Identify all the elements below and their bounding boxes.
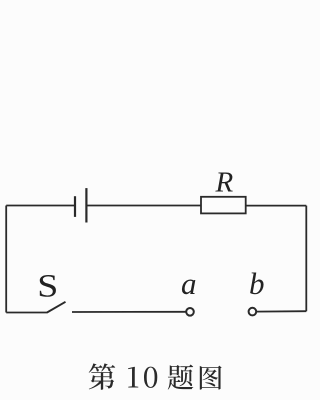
resistor R box — [201, 197, 246, 214]
wire: top-left from left corner to battery — [6, 205, 75, 207]
terminal b open circle — [249, 308, 257, 316]
caption glyph 题 — [168, 365, 193, 390]
battery cell short plate (negative) — [74, 196, 76, 217]
caption glyph 图 — [200, 366, 222, 390]
switch S blade (open) — [47, 302, 66, 313]
battery cell long plate (positive) — [85, 188, 87, 222]
wire: battery to resistor — [86, 205, 201, 207]
svg-text:S: S — [37, 267, 58, 304]
wire: resistor to top-right corner — [246, 205, 307, 207]
svg-text:b: b — [249, 266, 265, 301]
wire: switch pivot to bottom-left corner — [6, 312, 47, 314]
caption glyph 1 — [128, 367, 138, 388]
wire: bottom-right corner to terminal b — [256, 310, 306, 312]
terminal a open circle — [186, 308, 194, 316]
wire: right side vertical — [305, 206, 307, 312]
svg-text:R: R — [215, 166, 234, 198]
wire: terminal a to switch gap — [72, 311, 186, 313]
caption glyph 0 — [144, 367, 157, 388]
caption glyph 第 — [89, 363, 116, 389]
wire: left side vertical — [5, 206, 7, 313]
svg-text:a: a — [181, 266, 197, 301]
caption text: 第 10 题图 — [89, 363, 222, 389]
